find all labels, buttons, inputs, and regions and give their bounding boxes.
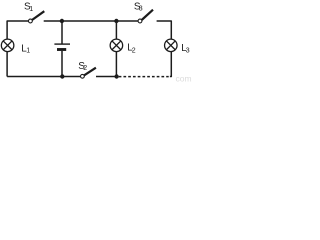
node junction dot top L2 (114, 19, 118, 23)
wire L2 branch upper (115, 21, 117, 39)
wire bottom-right corner (170, 52, 171, 77)
wire top-left segment (7, 21, 28, 39)
svg-text:com: com (176, 74, 192, 84)
svg-text:3: 3 (139, 6, 143, 13)
lamp L2 symbol (110, 39, 123, 52)
svg-text:2: 2 (132, 48, 136, 55)
switch S2 hinge circle (81, 74, 85, 78)
svg-text:3: 3 (186, 48, 190, 55)
wire battery bottom lead (61, 51, 63, 77)
wire bottom middle segment (96, 76, 117, 78)
node junction dot bottom battery (60, 74, 64, 78)
battery cell short thick plate (57, 48, 66, 51)
svg-text:1: 1 (29, 6, 33, 13)
battery cell long plate (54, 43, 70, 45)
lamp L1 symbol (1, 39, 14, 52)
svg-text:1: 1 (26, 48, 30, 55)
wire bottom left segment (7, 76, 80, 78)
switch S2 blade (84, 68, 96, 76)
wire bottom right dashed segment (119, 76, 169, 78)
wire left vertical lower (6, 52, 8, 77)
node junction dot bottom L2 (114, 74, 118, 78)
node junction dot top battery (60, 19, 64, 23)
wire top middle segment (44, 20, 138, 22)
switch S3 hinge circle (138, 19, 142, 23)
wire battery top lead (61, 21, 63, 44)
switch S1 hinge circle (29, 19, 33, 23)
wire top right segment (157, 21, 172, 39)
wire L2 branch lower (115, 52, 117, 77)
switch S1 blade (32, 11, 44, 20)
switch S3 blade (142, 10, 153, 20)
svg-text:2: 2 (83, 65, 87, 72)
lamp L3 symbol (165, 39, 178, 52)
